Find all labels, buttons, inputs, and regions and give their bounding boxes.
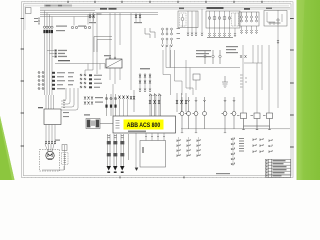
svg-text:ABB ACS 800: ABB ACS 800 xyxy=(127,122,161,129)
